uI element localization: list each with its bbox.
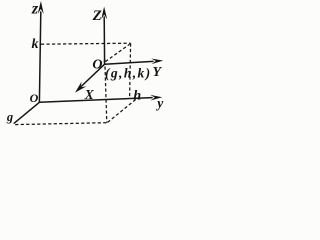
dashed bottom line from g [15, 123, 106, 125]
svg-text:z: z [31, 1, 39, 18]
X axis [79, 64, 105, 89]
X arrowhead [75, 81, 86, 92]
svg-text:Z: Z [92, 8, 102, 24]
svg-text:k: k [32, 37, 39, 52]
dashed vertical below O' [105, 67, 107, 123]
z arrowhead [38, 1, 44, 14]
y arrowhead [150, 95, 162, 101]
svg-text:X: X [84, 87, 95, 102]
dashed box right vertical [130, 43, 131, 97]
Y axis [105, 61, 153, 64]
svg-text:(g,h,k): (g,h,k) [105, 65, 152, 80]
z axis [39, 12, 40, 102]
dashed O' diagonal [105, 44, 129, 61]
Y arrowhead [151, 59, 163, 65]
y axis [39, 98, 152, 103]
dashed diagonal to h [108, 99, 136, 122]
Z axis [103, 17, 105, 64]
svg-text:O: O [30, 91, 39, 105]
x axis [14, 102, 39, 123]
svg-text:y: y [155, 96, 164, 111]
svg-text:h: h [133, 88, 141, 103]
Z arrowhead [101, 7, 107, 20]
dashed k line [41, 43, 131, 44]
3D translated coordinate axes figure [0, 0, 169, 128]
svg-text:Y: Y [153, 65, 163, 80]
svg-text:g: g [6, 110, 13, 124]
